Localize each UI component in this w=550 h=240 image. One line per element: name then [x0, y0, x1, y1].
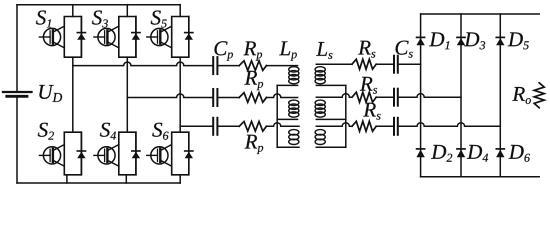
body diode of S1	[77, 17, 85, 58]
wire: secondary row1 coil to resistor	[316, 63, 352, 65]
wire row3 resistor to Lp coil3, hop over primary neutral bus	[266, 123, 299, 127]
label Cs	[396, 41, 413, 58]
label D1	[429, 32, 449, 49]
capacitor Cp row1	[213, 57, 217, 74]
label D5	[508, 32, 529, 49]
wire: leg3 midpoint vertical	[179, 57, 181, 132]
wire: secondary row2, hop over secondary bus	[316, 94, 352, 98]
wire: DC left rail upper	[16, 5, 18, 91]
transistor S1 cell box	[64, 17, 81, 58]
diode D1	[416, 37, 424, 45]
resistor Rs row2	[352, 92, 376, 102]
label Lp	[279, 41, 297, 60]
wire: primary neutral bus	[276, 85, 278, 147]
wire row3s resistor to Cs	[376, 125, 393, 127]
wire: secondary row3, hop over secondary bus	[316, 123, 352, 127]
wire Lp coil3 bottom lead	[277, 146, 299, 148]
wire row3 cap to resistor	[218, 125, 239, 127]
wire row2 resistor to Lp coil2, hop over primary neutral bus	[266, 94, 297, 98]
wire Lp coil2 bottom lead	[277, 118, 297, 120]
inductor Ls coil2 loops	[315, 100, 325, 117]
transistor S4 symbol	[94, 145, 119, 167]
label Rs row2	[360, 77, 377, 94]
wire: S6 bottom stub	[179, 175, 181, 183]
label Ro	[512, 87, 531, 104]
transistor S3 symbol	[94, 26, 119, 48]
label S2	[38, 123, 54, 140]
transistor S6 cell box	[172, 132, 189, 175]
wire: bridge bottom rail	[421, 176, 540, 178]
resistor Ro (vertical)	[534, 83, 544, 108]
transistor S5 symbol	[147, 26, 172, 48]
transistor S2 symbol	[39, 145, 64, 167]
body diode of S4	[132, 132, 140, 175]
body diode of S6	[185, 132, 193, 175]
body diode of S2	[77, 132, 85, 175]
body diode of S5	[185, 17, 193, 58]
inductor Ls coil1 loops	[315, 67, 325, 84]
label S1	[36, 11, 51, 28]
capacitor Cs row3	[394, 118, 398, 135]
capacitor Cp row3	[213, 118, 217, 135]
label Rs row1	[358, 41, 375, 58]
wire: bridge leg3	[499, 14, 501, 177]
wire Lp coil1 bottom lead	[277, 84, 297, 86]
wire: phase row1 with hops over leg2,leg3	[73, 62, 212, 66]
wire Ls coil2 bottom lead	[316, 118, 346, 120]
transistor S2 cell box	[64, 132, 81, 175]
capacitor Cs row2	[394, 89, 398, 106]
diode D5	[496, 37, 504, 45]
resistor Rs row3	[352, 121, 376, 131]
capacitor Cs row1	[394, 56, 398, 73]
label Rp row1	[243, 41, 262, 60]
wire: top rail to leg3	[17, 4, 180, 6]
label S4	[100, 123, 116, 140]
label Rs row3	[363, 103, 380, 120]
transistor S1 symbol	[39, 26, 64, 48]
wire row1s resistor to Cs	[376, 63, 393, 65]
label D3	[464, 32, 485, 49]
label S3	[92, 11, 108, 28]
wire: S4 bottom stub	[125, 175, 127, 183]
diode D2	[416, 149, 424, 157]
wire: bridge leg2	[460, 14, 462, 177]
label UD	[39, 85, 62, 102]
inductor Lp coil3 loops	[289, 130, 299, 145]
wire: phase row2 with hop over leg3	[127, 94, 212, 98]
label Cp	[214, 41, 232, 60]
capacitor Cp row2	[213, 89, 217, 106]
transistor S6 symbol	[147, 145, 172, 167]
battery UD plates	[3, 92, 32, 96]
resistor Rp row3	[239, 122, 266, 132]
transistor S4 cell box	[119, 132, 136, 175]
wire: S2 bottom stub	[66, 175, 68, 183]
wire: phase row3	[180, 125, 212, 127]
wire row1s Cs to bridge leg1	[399, 63, 421, 65]
wire row1 cap to resistor	[218, 65, 239, 67]
label D2	[431, 145, 452, 162]
diode D6	[496, 149, 504, 157]
label Rp row3	[245, 135, 264, 154]
transistor S3 cell box	[119, 17, 136, 58]
wire: bottom rail to leg3	[17, 182, 180, 184]
diode D4	[457, 149, 465, 157]
wire row1 resistor to Lp coil1	[266, 65, 297, 67]
wire row2 cap to resistor	[218, 97, 239, 99]
wire: leg1 top stub	[72, 5, 74, 17]
resistor Rs row1	[352, 59, 376, 69]
wire Ls coil3 bottom lead	[316, 146, 346, 148]
label Ls	[316, 42, 332, 59]
wire: secondary neutral bus	[345, 85, 347, 147]
label S6	[152, 123, 168, 140]
body diode of S3	[132, 17, 140, 58]
wire: leg1 midpoint vertical	[72, 57, 74, 132]
resistor Rp row2	[239, 93, 266, 103]
wire: leg2 midpoint vertical	[126, 57, 128, 132]
label S5	[151, 11, 167, 28]
inductor Ls coil3 loops	[315, 130, 325, 145]
wire row2s resistor to Cs	[376, 96, 393, 98]
wire: bridge top rail	[421, 13, 540, 15]
inductor Lp coil1 loops	[289, 67, 299, 84]
wire Ls coil1 bottom lead	[316, 84, 346, 86]
wire row3s Cs to bridge leg3, hops over leg1,leg2	[399, 123, 501, 127]
label Rp row2	[244, 71, 263, 90]
resistor Rp row1	[239, 61, 266, 71]
wire: leg2 top stub	[126, 5, 128, 17]
label D4	[467, 145, 488, 162]
wire row2s Cs to bridge leg2, hop over leg1	[399, 94, 461, 98]
transistor S5 cell box	[172, 17, 189, 58]
wire: bridge leg1	[420, 14, 422, 177]
label D6	[509, 145, 530, 162]
wire: leg3 top stub	[179, 5, 181, 17]
wire: DC left rail lower	[16, 97, 18, 183]
diode D3	[457, 37, 465, 45]
inductor Lp coil2 loops	[289, 100, 299, 117]
